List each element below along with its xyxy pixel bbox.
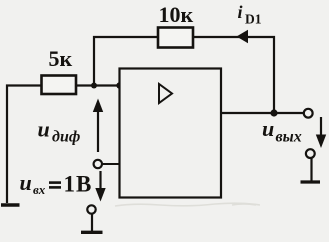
resistor R2 10k xyxy=(158,28,193,48)
svg-text:10к: 10к xyxy=(159,2,194,27)
u_out arrow (down) xyxy=(320,117,322,136)
terminal (output bottom) xyxy=(306,149,315,158)
ground (input source) xyxy=(91,214,93,232)
u_dif arrow (up) xyxy=(97,108,99,152)
wire: R1 to op-amp inverting input xyxy=(76,84,120,86)
svg-text:u: u xyxy=(262,116,274,141)
resistor R1 5k xyxy=(42,76,77,95)
svg-text:1: 1 xyxy=(64,172,76,197)
ground (bottom-left of source loop) xyxy=(1,203,20,206)
node C (output junction) xyxy=(270,109,277,116)
u_in arrow (down) xyxy=(99,171,101,190)
terminal (output top) xyxy=(304,109,313,118)
wire: output xyxy=(221,112,304,114)
svg-text:u: u xyxy=(38,117,50,142)
svg-text:диф: диф xyxy=(52,129,80,146)
faint scan bleed-through marks xyxy=(115,203,260,206)
wire: feedback top right + right vertical down to output node xyxy=(193,37,274,113)
svg-text:i: i xyxy=(238,2,243,22)
node A (feedback tap junction) xyxy=(91,83,97,89)
wire: feedback left vertical + top horizontal to R2 xyxy=(94,37,158,86)
svg-text:u: u xyxy=(20,170,32,195)
svg-text:5к: 5к xyxy=(49,46,73,71)
node B (op-amp input junction) xyxy=(116,82,122,88)
op-amp triangle symbol xyxy=(159,84,172,103)
svg-text:вх: вх xyxy=(33,182,46,197)
current arrow iD1 (points left) xyxy=(237,30,249,43)
svg-text:вых: вых xyxy=(276,129,302,146)
svg-text:D1: D1 xyxy=(245,12,262,27)
terminal (input bottom) xyxy=(87,205,95,213)
svg-text:В: В xyxy=(76,172,91,197)
op-amp U1 body xyxy=(120,69,222,198)
terminal (input top) xyxy=(94,160,102,168)
ground (output) xyxy=(310,158,312,181)
wire: source left horizontal to R1 xyxy=(7,86,41,204)
wire: non-inverting input stub xyxy=(102,163,120,165)
